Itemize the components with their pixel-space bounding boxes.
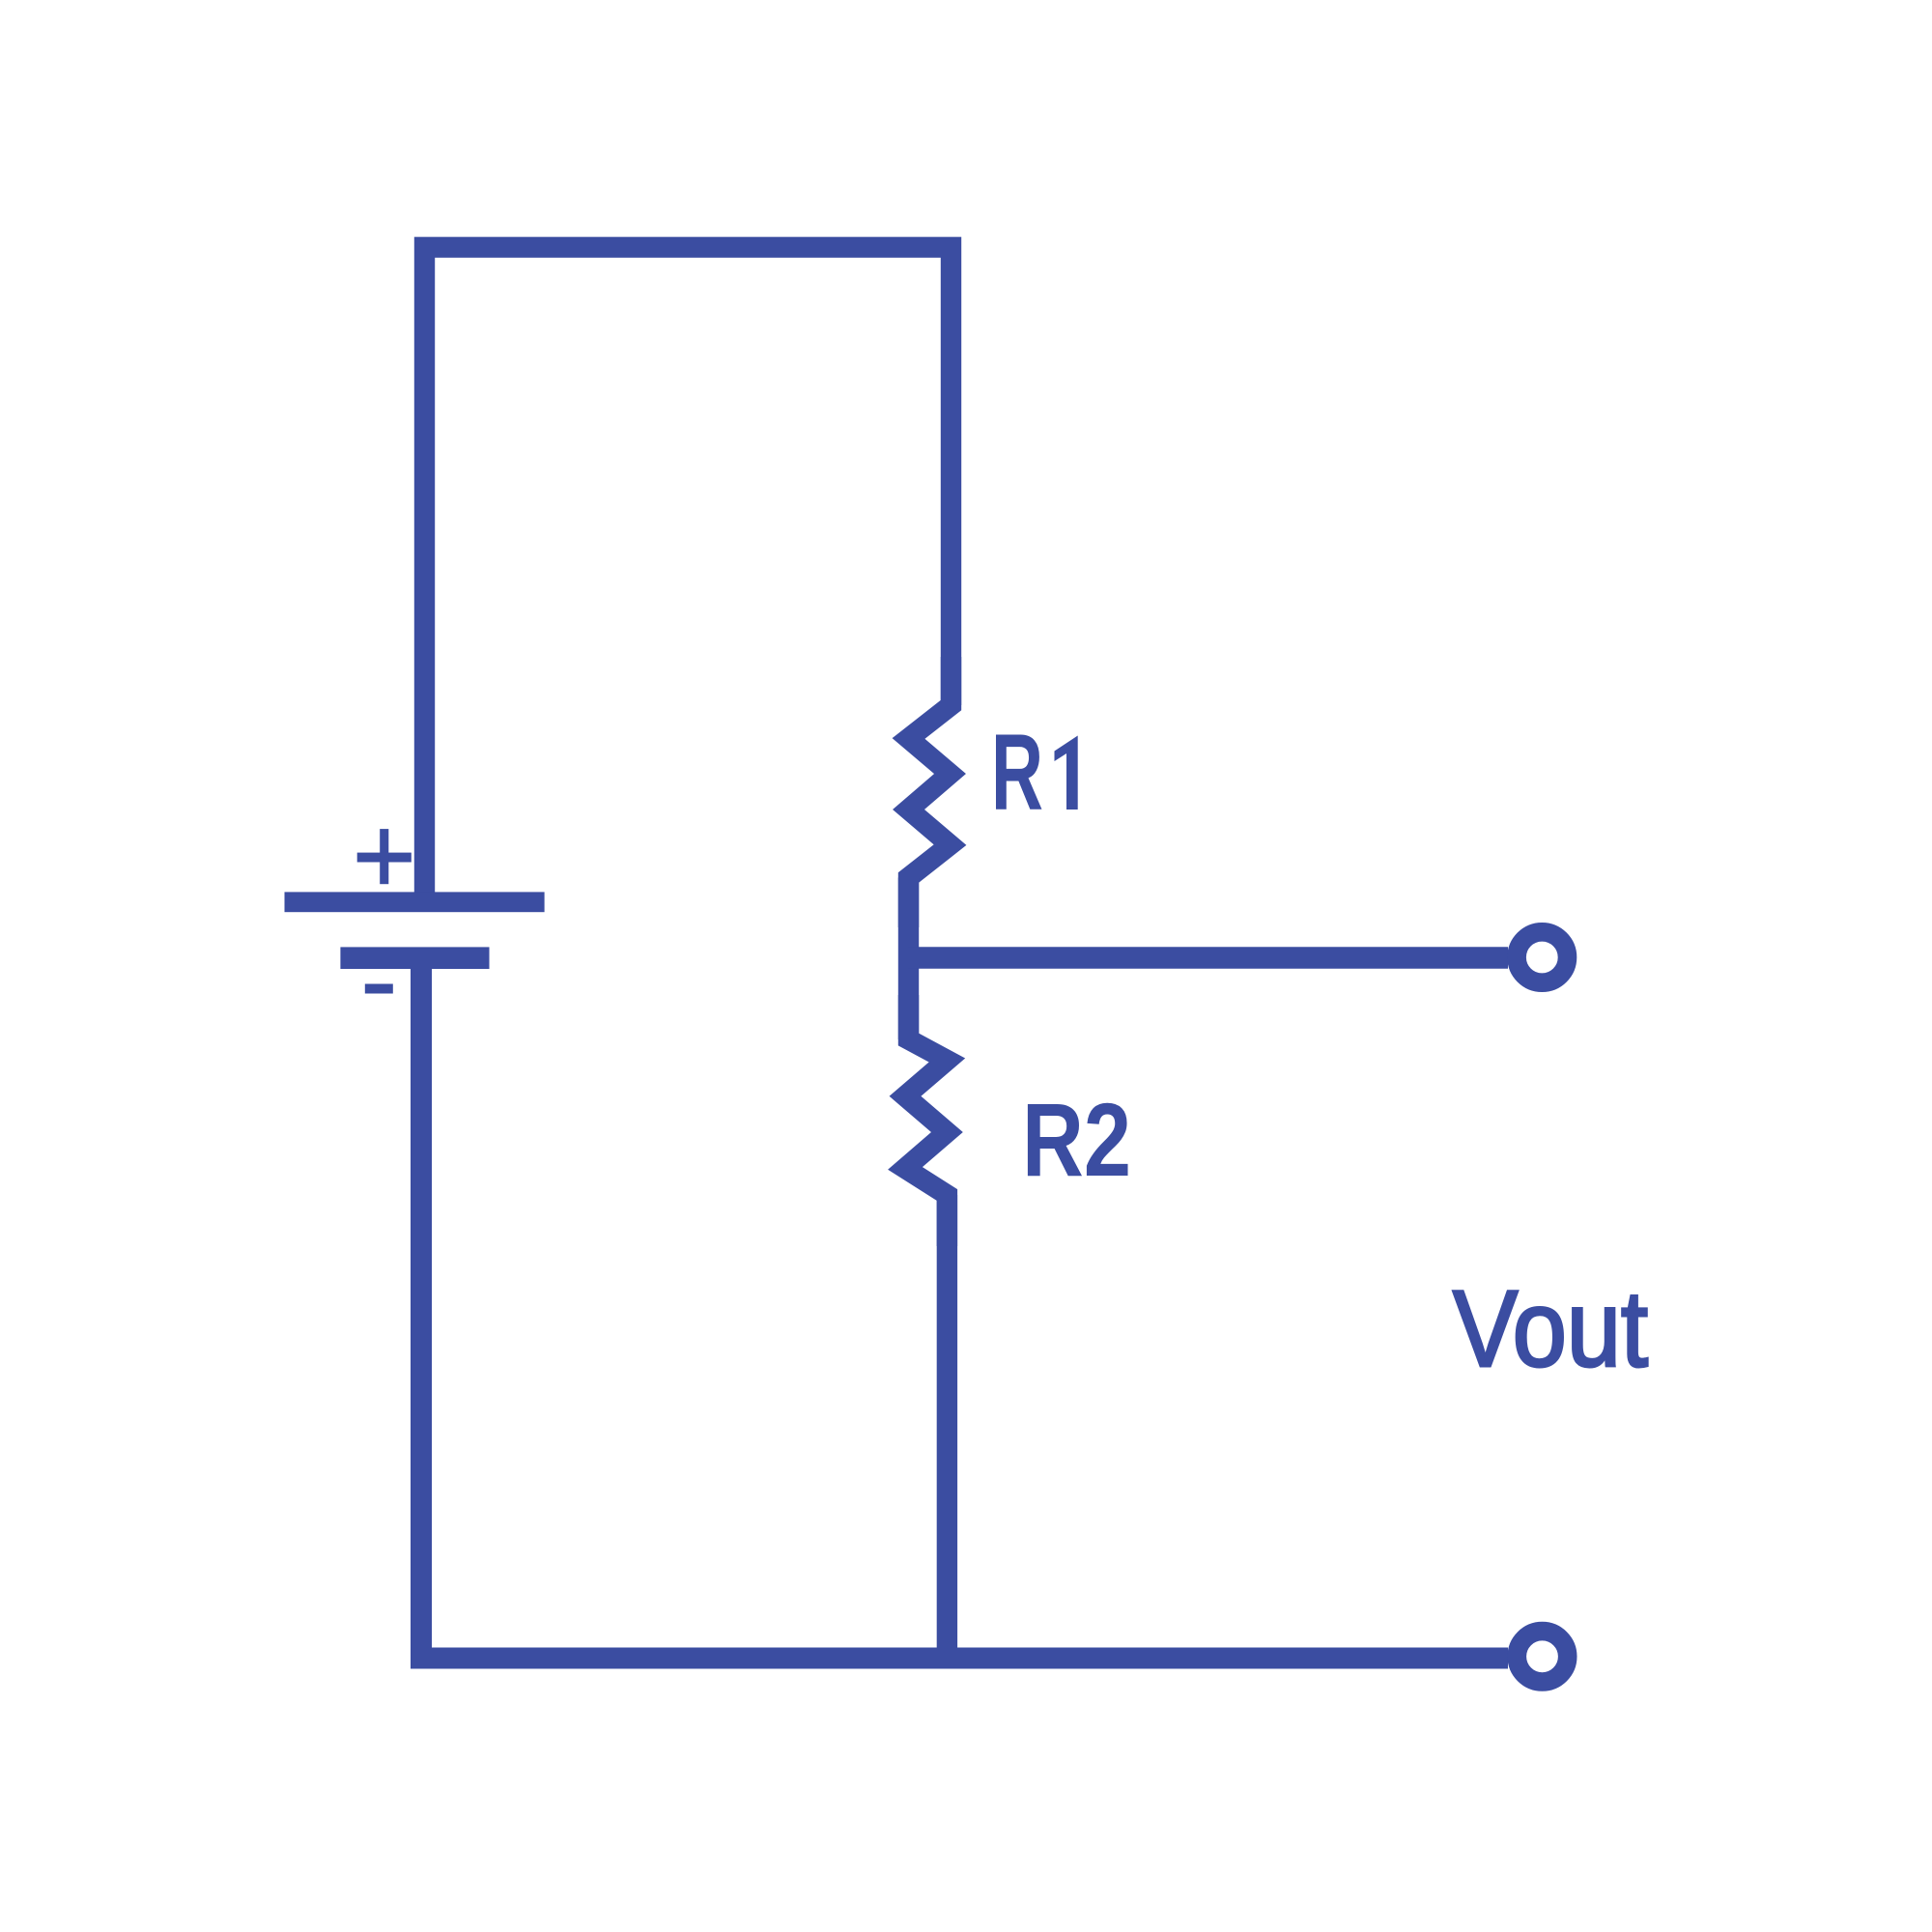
svg-text:R: R — [991, 712, 1043, 833]
battery minus symbol — [365, 984, 393, 994]
battery BT1 positive plate — [285, 892, 545, 912]
battery BT1 negative plate — [340, 947, 489, 969]
label R1 — [991, 712, 1078, 833]
wire: battery positive lead, top wire, R1 top lead — [425, 247, 952, 901]
terminal: Vout negative (open circle) — [1517, 1632, 1567, 1682]
svg-text:R2: R2 — [1022, 1081, 1131, 1198]
wire: R2 bottom lead — [937, 1195, 957, 1668]
terminal: Vout positive (open circle) — [1517, 932, 1567, 982]
battery plus symbol — [357, 829, 412, 884]
resistor R2 — [905, 995, 947, 1246]
node A: output wire to Vout+ terminal — [908, 947, 1508, 969]
wire: battery negative lead and bottom return wire — [421, 966, 1508, 1659]
resistor R1 — [909, 657, 952, 927]
svg-text:Vout: Vout — [1453, 1268, 1648, 1389]
wire: R1 bottom lead to node A and R2 top lead — [898, 878, 919, 1040]
